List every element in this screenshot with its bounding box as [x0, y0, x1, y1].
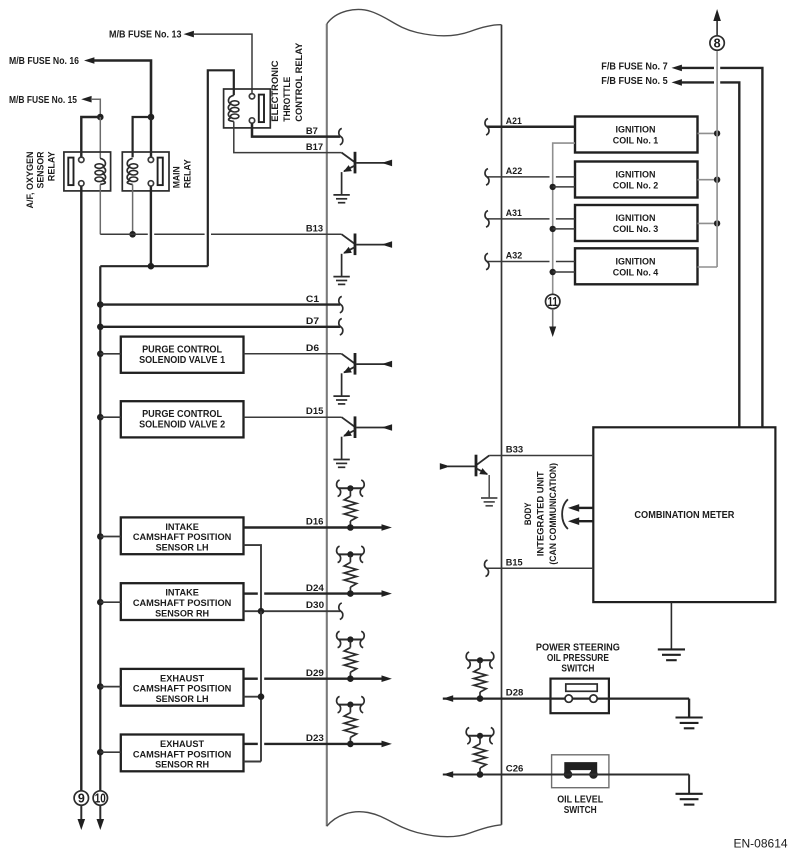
wire to A/F relay contact: [81, 117, 100, 157]
wire F/B FUSE No.5 to combination meter: [681, 81, 714, 83]
svg-text:A/F, OXYGEN: A/F, OXYGEN: [25, 151, 36, 208]
svg-text:A32: A32: [506, 251, 522, 262]
oil level switch terminal left: [564, 770, 573, 779]
page connector circle 10: [93, 791, 107, 805]
node intake LH supply: [97, 533, 104, 540]
node fuse16 / main relay: [148, 114, 155, 121]
wire A31: [487, 218, 550, 220]
wire below circle 10: [99, 805, 101, 819]
arrow D29 into ECM: [382, 675, 392, 682]
wire main relay output bus: [100, 265, 208, 267]
wire intake LH common: [244, 545, 262, 610]
wire below circle 9: [80, 805, 82, 819]
svg-text:PURGE CONTROL: PURGE CONTROL: [142, 409, 222, 420]
MAIN relay contact bar: [158, 158, 163, 186]
node purge valve 1 supply: [97, 351, 104, 358]
wire A22: [487, 176, 550, 178]
A/F relay terminal top: [79, 157, 84, 162]
wire power steering switch to ground: [688, 699, 690, 718]
box IGNITION COIL No. 3: [575, 205, 698, 241]
ECM torn top edge (wavy): [327, 10, 502, 36]
svg-text:D24: D24: [306, 583, 325, 594]
svg-text:8: 8: [714, 36, 721, 50]
svg-text:IGNITION: IGNITION: [616, 213, 656, 223]
svg-text:SWITCH: SWITCH: [564, 805, 597, 816]
svg-text:B13: B13: [306, 224, 323, 235]
node coil 3 common: [550, 226, 556, 232]
box COMBINATION METER: [593, 427, 775, 602]
svg-text:CAMSHAFT POSITION: CAMSHAFT POSITION: [133, 749, 232, 759]
svg-text:SENSOR: SENSOR: [35, 151, 46, 188]
wire coil 4 common stub: [553, 271, 575, 273]
svg-text:EXHAUST: EXHAUST: [160, 739, 204, 749]
node coil 3 output: [714, 220, 720, 226]
svg-text:CAMSHAFT POSITION: CAMSHAFT POSITION: [133, 532, 232, 542]
arrow to M/B FUSE No. 15: [81, 96, 91, 103]
CAN arrow upper: [579, 507, 594, 509]
wire A21: [487, 126, 575, 129]
wire B17 from ETC relay coil: [234, 122, 342, 153]
svg-text:F/B FUSE No. 5: F/B FUSE No. 5: [601, 76, 668, 87]
svg-text:M/B FUSE No. 16: M/B FUSE No. 16: [9, 56, 79, 67]
node purge valve 2 supply: [97, 414, 104, 421]
wire D28: [443, 697, 565, 699]
wire coil 3 output: [698, 222, 718, 224]
wire coil 3 common stub: [553, 228, 575, 230]
node D30 / sensor common: [258, 608, 265, 615]
svg-text:MAIN: MAIN: [171, 166, 182, 188]
box PURGE CONTROL SOLENOID VALVE 1: [121, 337, 244, 373]
wire to main relay coil: [133, 117, 151, 157]
svg-text:A31: A31: [506, 208, 523, 219]
svg-text:11: 11: [547, 295, 558, 309]
wire sensor common bus: [260, 611, 262, 761]
box INTAKE CAMSHAFT POSITION SENSOR RH: [121, 583, 244, 620]
power steering switch terminal right: [590, 695, 597, 702]
svg-text:B7: B7: [306, 126, 318, 137]
wire M/B FUSE No.13 to ETC relay contact: [193, 34, 252, 93]
svg-text:RELAY: RELAY: [183, 159, 194, 189]
svg-text:SENSOR LH: SENSOR LH: [156, 694, 209, 704]
svg-text:COMBINATION METER: COMBINATION METER: [634, 510, 735, 521]
svg-text:M/B FUSE No. 15: M/B FUSE No. 15: [9, 95, 77, 106]
oil level switch float contact: [564, 762, 597, 774]
svg-text:INTAKE: INTAKE: [165, 588, 199, 598]
transistor Q3 (D6 driver): [342, 354, 355, 364]
resistor pull-up network C26: [468, 735, 492, 737]
svg-text:D28: D28: [506, 688, 524, 699]
ECM right boundary: [501, 25, 503, 825]
resistor pull-up network D16: [339, 487, 363, 489]
svg-text:SOLENOID VALVE 2: SOLENOID VALVE 2: [139, 419, 225, 430]
wire A32: [487, 261, 550, 263]
svg-text:OIL LEVEL: OIL LEVEL: [557, 795, 603, 806]
wire M/B FUSE No.16 to main relay: [94, 61, 151, 118]
ECM torn bottom edge (wavy): [327, 812, 502, 837]
wire combination meter ground stem: [670, 602, 672, 649]
box PURGE CONTROL SOLENOID VALVE 2: [121, 401, 244, 437]
arrow down circle 11: [549, 327, 556, 338]
node B13 coil junction: [129, 231, 136, 238]
resistor pull-up network D23: [339, 704, 363, 706]
wire coil 1 output: [698, 132, 718, 134]
svg-text:INTAKE: INTAKE: [165, 522, 199, 532]
wire B7 from ETC relay contact: [252, 123, 340, 136]
box IGNITION COIL No. 1: [575, 117, 698, 153]
node coil 1 output: [714, 130, 720, 136]
wire intake LH supply stub: [100, 536, 121, 538]
wire D29 signal: [244, 678, 258, 680]
svg-text:B17: B17: [306, 142, 323, 153]
wire D30 common: [244, 610, 341, 612]
svg-text:D30: D30: [306, 600, 324, 611]
page connector circle 11: [546, 294, 560, 308]
transistor Q5 (B33 driver): [476, 456, 489, 466]
wire main relay contact feed: [150, 117, 152, 157]
svg-text:INTEGRATED UNIT: INTEGRATED UNIT: [535, 471, 546, 556]
box power steering oil pressure switch: [551, 679, 609, 714]
node coil 4 common: [550, 269, 556, 275]
wire ETC relay coil feed: [208, 70, 234, 266]
A/F relay coil: [95, 164, 103, 169]
transistor Q4 (D15 driver): [342, 417, 355, 427]
arrow to M/B FUSE No. 13: [184, 31, 194, 38]
arrow to F/B FUSE No. 5: [672, 79, 682, 86]
power steering switch terminal left: [565, 695, 572, 702]
wire A/F relay coil feed: [99, 117, 101, 158]
wire ignition coil common bus: [553, 143, 575, 295]
connector squiggle D30: [339, 603, 343, 619]
wire bus A/F relay output (to circle 9): [80, 186, 82, 791]
arrow down circle 9: [78, 819, 86, 830]
wire A/F relay coil low side: [99, 185, 101, 235]
node exhaust LH common: [258, 693, 265, 700]
svg-text:IGNITION: IGNITION: [616, 170, 656, 180]
wire coil 2 output: [698, 179, 718, 181]
svg-text:(CAN COMMUNICATION): (CAN COMMUNICATION): [548, 463, 559, 565]
node C1 on sensor bus: [97, 301, 104, 308]
wire D15: [244, 416, 342, 418]
svg-text:EXHAUST: EXHAUST: [160, 673, 204, 683]
node intake RH supply: [97, 599, 104, 606]
svg-text:D23: D23: [306, 733, 324, 744]
wire to page connector 8: [716, 21, 718, 36]
wire coil 4 output to bus: [698, 266, 718, 268]
wire main relay contact bottom: [150, 186, 152, 266]
ground combination meter: [658, 648, 685, 650]
box IGNITION COIL No. 4: [575, 248, 698, 284]
arrow D16 into ECM: [382, 524, 392, 531]
ETC relay terminal top: [249, 94, 254, 99]
wire purge valve 2 supply stub: [100, 416, 121, 418]
connector squiggle A32: [485, 253, 489, 269]
svg-text:RELAY: RELAY: [46, 151, 57, 181]
svg-text:B15: B15: [506, 557, 523, 568]
arrow to F/B FUSE No. 7: [672, 65, 682, 72]
wire B13 from relay coils: [100, 233, 148, 235]
svg-text:C1: C1: [306, 294, 320, 305]
arrow C26 out of ECM: [443, 771, 453, 778]
connector squiggle A31: [485, 211, 489, 227]
power steering switch contact bar: [566, 684, 597, 691]
A/F relay contact bar: [68, 158, 73, 186]
wire sensor supply bus (to circle 10): [99, 266, 101, 791]
connector squiggle B15: [484, 560, 488, 576]
connector squiggle B7: [339, 128, 343, 144]
svg-text:COIL No. 2: COIL No. 2: [613, 181, 659, 191]
ECM left boundary (wire harness side): [326, 24, 328, 826]
wire exhaust RH common stub: [244, 761, 262, 763]
relay box MAIN RELAY: [122, 152, 169, 191]
MAIN relay coil: [129, 164, 137, 169]
MAIN relay terminal top: [148, 157, 153, 162]
wire D24 signal: [244, 592, 258, 594]
svg-text:BODY: BODY: [523, 502, 534, 525]
resistor pull-up network D29: [339, 639, 363, 641]
svg-text:D6: D6: [306, 343, 319, 354]
node coil 2 common: [550, 184, 556, 190]
svg-text:F/B FUSE No. 7: F/B FUSE No. 7: [601, 61, 668, 72]
svg-text:M/B FUSE No. 13: M/B FUSE No. 13: [109, 30, 182, 41]
svg-text:9: 9: [78, 791, 85, 805]
page connector circle 8: [710, 36, 724, 50]
wire exhaust LH supply stub: [100, 686, 121, 688]
svg-text:10: 10: [95, 791, 106, 805]
svg-text:SWITCH: SWITCH: [561, 663, 594, 674]
wire purge valve 1 supply stub: [100, 353, 121, 355]
arrow down circle 10: [97, 819, 105, 830]
wire oil level switch to ground: [688, 775, 690, 794]
node D7 on sensor bus: [97, 324, 104, 331]
wire D23 signal: [244, 743, 258, 745]
CAN communication arc: [562, 499, 568, 529]
wire B15 to combination meter: [487, 567, 594, 569]
svg-text:D7: D7: [306, 316, 319, 327]
wire C26: [443, 774, 689, 776]
svg-text:THROTTLE: THROTTLE: [282, 77, 293, 122]
relay box A/F, OXYGEN SENSOR RELAY: [64, 152, 111, 191]
wire intake RH supply stub: [100, 601, 121, 603]
svg-text:A22: A22: [506, 166, 522, 177]
connector squiggle D7: [339, 319, 343, 335]
wire C1: [100, 303, 340, 305]
connector squiggle C1: [339, 296, 343, 312]
svg-text:SOLENOID VALVE 1: SOLENOID VALVE 1: [139, 355, 225, 366]
wire coil 2 common stub: [553, 186, 575, 188]
svg-text:CONTROL RELAY: CONTROL RELAY: [294, 42, 305, 122]
svg-text:CAMSHAFT POSITION: CAMSHAFT POSITION: [133, 684, 232, 694]
svg-text:B33: B33: [506, 445, 523, 456]
page connector circle 9: [74, 791, 88, 805]
wire exhaust LH common stub: [244, 696, 262, 698]
svg-text:D29: D29: [306, 668, 324, 679]
CAN arrow lower: [579, 520, 594, 522]
svg-text:A21: A21: [506, 116, 523, 127]
svg-text:COIL No. 3: COIL No. 3: [613, 224, 659, 234]
arrow to M/B FUSE No. 16: [84, 57, 94, 64]
connector squiggle A22: [485, 169, 489, 185]
MAIN relay terminal bottom: [148, 181, 153, 186]
arrow D28 out of ECM: [443, 695, 453, 702]
node fuse15 / A/F relay: [97, 114, 104, 121]
box EXHAUST CAMSHAFT POSITION SENSOR RH: [121, 735, 244, 772]
arrow D24 into ECM: [382, 590, 392, 597]
node main relay contact / bus: [148, 263, 155, 270]
svg-text:D15: D15: [306, 406, 324, 417]
svg-text:COIL No. 1: COIL No. 1: [613, 136, 659, 146]
wire B33 to combination meter: [489, 455, 593, 457]
arrow up page connector 8: [713, 9, 721, 21]
svg-text:EN-08614: EN-08614: [734, 837, 788, 851]
oil level switch terminal right: [589, 770, 598, 779]
transistor Q1 (B17 driver): [342, 153, 355, 163]
wire D7: [100, 326, 340, 328]
wire M/B FUSE No.15 to A/F relay coil: [91, 99, 101, 117]
transistor Q2 (B13 driver): [342, 234, 355, 244]
box oil level switch: [552, 755, 609, 788]
node coil 2 output: [714, 177, 720, 183]
svg-text:SENSOR RH: SENSOR RH: [155, 608, 209, 618]
svg-text:SENSOR RH: SENSOR RH: [155, 760, 209, 770]
svg-text:D16: D16: [306, 517, 324, 528]
relay box ELECTRONIC THROTTLE CONTROL RELAY: [224, 89, 271, 128]
ground oil level switch: [676, 793, 703, 795]
svg-text:PURGE CONTROL: PURGE CONTROL: [142, 344, 222, 355]
svg-text:IGNITION: IGNITION: [616, 257, 656, 267]
wire ignition secondary bus: [716, 50, 718, 267]
ETC relay coil: [231, 101, 239, 106]
wire D6: [244, 353, 342, 355]
wire below circle 11: [552, 309, 554, 327]
arrow D23 into ECM: [382, 741, 392, 748]
A/F relay terminal bottom: [79, 181, 84, 186]
svg-text:CAMSHAFT POSITION: CAMSHAFT POSITION: [133, 598, 232, 608]
svg-text:POWER STEERING: POWER STEERING: [536, 642, 620, 653]
resistor pull-up network D28: [468, 659, 492, 661]
ETC relay contact bar: [259, 95, 264, 123]
wire D16 signal: [244, 526, 383, 528]
ETC relay terminal bottom: [249, 118, 254, 123]
svg-text:C26: C26: [506, 764, 524, 775]
svg-text:SENSOR LH: SENSOR LH: [156, 543, 209, 553]
connector squiggle A21: [485, 119, 489, 135]
resistor pull-up network D24: [339, 553, 363, 555]
node exhaust LH supply: [97, 683, 104, 690]
svg-text:IGNITION: IGNITION: [616, 125, 656, 135]
box IGNITION COIL No. 2: [575, 162, 698, 198]
wire main relay coil low side: [132, 185, 134, 235]
svg-text:COIL No. 4: COIL No. 4: [613, 268, 659, 278]
box EXHAUST CAMSHAFT POSITION SENSOR LH: [121, 669, 244, 706]
box INTAKE CAMSHAFT POSITION SENSOR LH: [121, 517, 244, 554]
wire exhaust RH supply stub: [100, 751, 121, 753]
ground power steering switch: [676, 716, 703, 718]
wire F/B FUSE No.7 to combination meter: [681, 67, 714, 69]
svg-text:OIL PRESSURE: OIL PRESSURE: [547, 653, 609, 664]
svg-text:ELECTRONIC: ELECTRONIC: [270, 60, 281, 121]
node exhaust RH supply: [97, 749, 104, 756]
